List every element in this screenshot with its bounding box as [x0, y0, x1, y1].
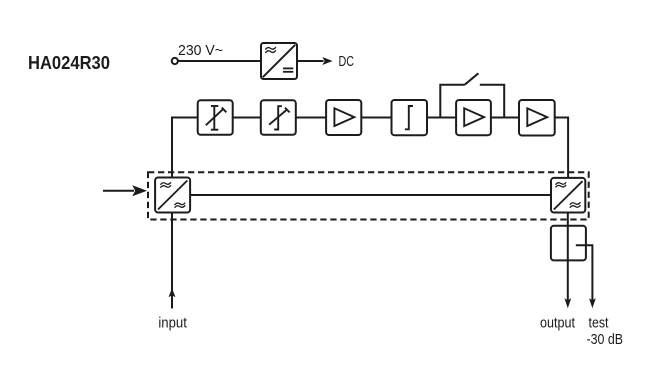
demodulator U3 (AC/AC converter right) [551, 178, 585, 213]
wire A6 down to demodulator [555, 118, 568, 178]
terminal 230V input [172, 58, 178, 64]
arrowhead input left [132, 185, 147, 196]
wire PSU to DC arrow [297, 60, 324, 62]
wire demodulator down to output arrow [567, 213, 569, 304]
block A1 adjustable attenuator [198, 100, 233, 135]
arrowhead input up [169, 288, 176, 297]
bypass switch S1 [440, 73, 504, 117]
test tap box [551, 226, 586, 261]
arrowhead output down [564, 298, 571, 308]
wire A2 to A3 [296, 117, 326, 119]
svg-text:230 V~: 230 V~ [178, 42, 223, 59]
svg-text:HA024R30: HA024R30 [28, 53, 110, 73]
block A6 output amplifier [519, 100, 555, 136]
block A2 adjustable integrator/shaper [261, 100, 296, 135]
svg-text:input: input [158, 315, 187, 332]
wire modulator down to input arrow [171, 213, 173, 309]
power supply AC/DC converter U1 [261, 43, 297, 79]
svg-text:output: output [540, 315, 576, 332]
block A3 amplifier [326, 100, 361, 135]
wire test tap branch [576, 245, 593, 303]
wire riser from signal chain down to modulator [172, 118, 198, 178]
modulator U2 (AC/AC converter left) [155, 178, 190, 213]
wire mains to PSU [178, 60, 261, 62]
block A5 switched amplifier [456, 100, 491, 135]
arrowhead test down [589, 298, 596, 308]
wire A5 to A6 [491, 117, 519, 119]
arrowhead DC [322, 57, 332, 65]
isolation barrier (dashed) [148, 172, 589, 219]
wire link modulator to demodulator [190, 194, 551, 196]
block A4 integrator [392, 100, 428, 135]
wire A1 to A2 [233, 117, 261, 119]
svg-text:test: test [589, 315, 610, 332]
wire A4 to A5 with bypass tap [427, 117, 456, 119]
svg-text:DC: DC [339, 53, 355, 70]
svg-text:-30 dB: -30 dB [587, 331, 624, 348]
input arrow into barrier [103, 190, 134, 192]
wire A3 to A4 [361, 117, 391, 119]
